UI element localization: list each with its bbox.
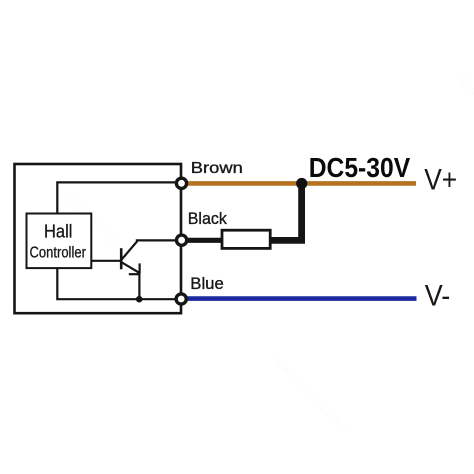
node junction on brown wire — [296, 178, 307, 189]
svg-text:Black: Black — [188, 209, 227, 228]
svg-text:Blue: Blue — [190, 274, 224, 293]
resistor R1 — [222, 230, 270, 248]
junction emitter to ground wire — [136, 296, 143, 303]
wire resistor pull-up to V+ — [270, 184, 302, 240]
svg-text:V-: V- — [425, 280, 451, 313]
transistor Q1 base bar — [120, 248, 123, 269]
svg-text:Brown: Brown — [191, 160, 243, 177]
terminal blue — [176, 294, 186, 304]
wire brown V+ — [187, 181, 416, 186]
wire Vcc from Hall box to brown terminal — [57, 182, 181, 214]
transistor Q1 collector — [121, 240, 181, 259]
terminal black — [177, 235, 187, 245]
svg-text:Hall: Hall — [44, 221, 72, 242]
Hall Controller box U1 — [27, 214, 92, 269]
svg-text:DC5-30V: DC5-30V — [309, 152, 411, 183]
transistor Q1 emitter with arrow — [121, 262, 139, 273]
svg-text:V+: V+ — [424, 164, 457, 197]
terminal brown — [176, 178, 186, 188]
sensor body outer box — [15, 164, 182, 313]
svg-text:Controller: Controller — [30, 245, 87, 262]
wire black output to resistor — [188, 238, 223, 243]
wire ground from Hall box bottom — [57, 268, 181, 299]
wire blue V- — [187, 296, 417, 301]
wire base from Hall box to transistor — [91, 260, 120, 262]
